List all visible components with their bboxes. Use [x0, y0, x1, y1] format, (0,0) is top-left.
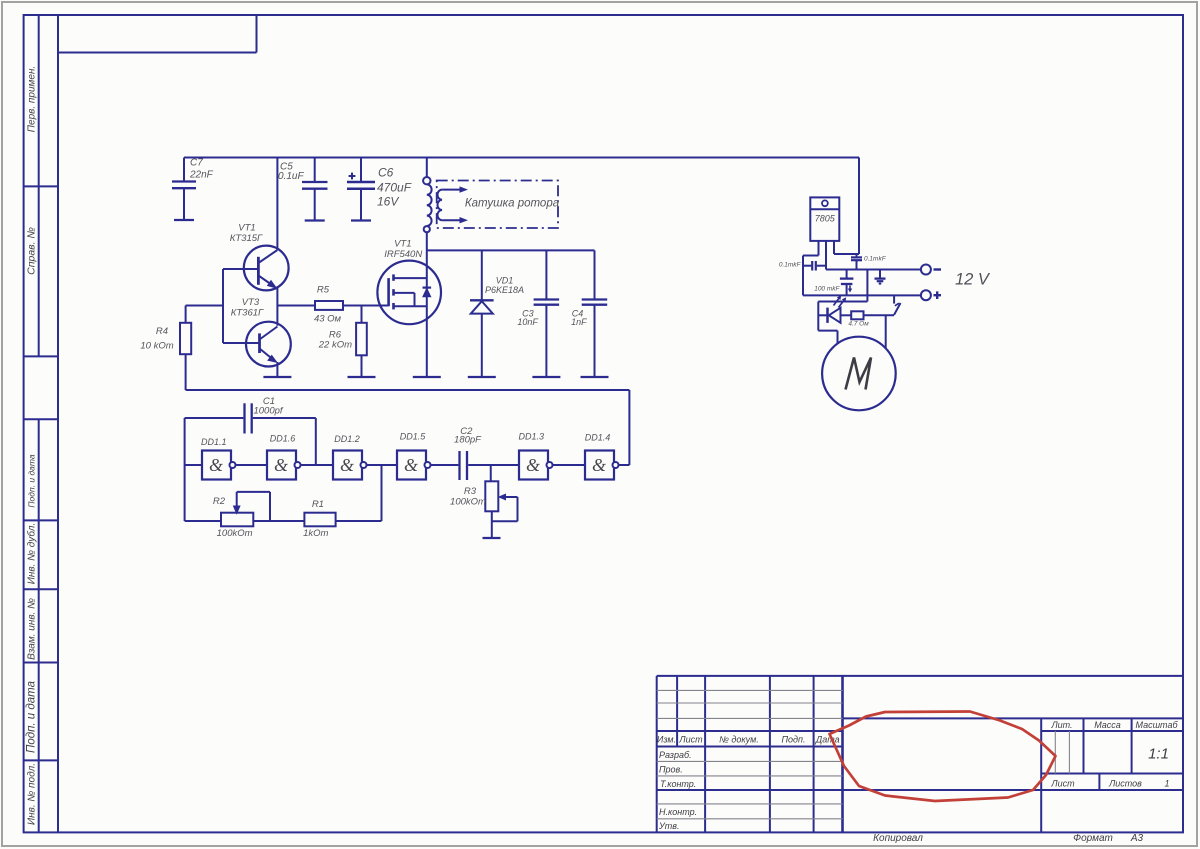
- svg-text:DD1.4: DD1.4: [585, 433, 611, 443]
- svg-text:43 Ом: 43 Ом: [314, 314, 342, 325]
- svg-text:DD1.5: DD1.5: [400, 432, 427, 442]
- svg-text:&: &: [274, 455, 288, 475]
- svg-text:DD1.6: DD1.6: [270, 434, 296, 444]
- svg-text:DD1.1: DD1.1: [201, 437, 227, 447]
- svg-text:VD1: VD1: [496, 276, 514, 286]
- svg-text:КТ361Г: КТ361Г: [231, 308, 264, 319]
- svg-text:100kOm: 100kOm: [450, 497, 486, 508]
- svg-text:&: &: [209, 455, 223, 475]
- svg-text:VT3: VT3: [242, 297, 260, 308]
- svg-text:Подп. и дата: Подп. и дата: [26, 681, 38, 753]
- svg-text:IRF540N: IRF540N: [384, 249, 422, 260]
- svg-text:22 kOm: 22 kOm: [318, 340, 352, 351]
- svg-text:P6KE18A: P6KE18A: [485, 285, 524, 295]
- svg-text:Масса: Масса: [1094, 720, 1121, 730]
- svg-text:Перв. примен.: Перв. примен.: [27, 66, 38, 132]
- svg-text:Масштаб: Масштаб: [1135, 720, 1178, 730]
- svg-text:C7: C7: [190, 158, 203, 169]
- svg-text:100 mkF: 100 mkF: [814, 286, 840, 293]
- svg-text:DD1.3: DD1.3: [519, 432, 545, 442]
- svg-text:Н.контр.: Н.контр.: [659, 807, 697, 817]
- svg-text:Т.контр.: Т.контр.: [660, 779, 696, 789]
- svg-text:Катушка ротора: Катушка ротора: [465, 198, 559, 210]
- svg-text:10nF: 10nF: [517, 317, 538, 327]
- svg-text:100kOm: 100kOm: [217, 528, 253, 539]
- svg-text:Справ. №: Справ. №: [26, 227, 38, 275]
- svg-text:Дата: Дата: [815, 735, 840, 745]
- svg-text:VT1: VT1: [238, 223, 255, 234]
- svg-text:DD1.2: DD1.2: [334, 434, 360, 444]
- svg-text:R3: R3: [464, 486, 477, 497]
- svg-text:470uF: 470uF: [377, 181, 412, 195]
- svg-text:Взам. инв. №: Взам. инв. №: [27, 598, 38, 660]
- svg-text:C6: C6: [378, 166, 394, 180]
- svg-text:КТ315Г: КТ315Г: [230, 233, 263, 244]
- svg-text:1000pf: 1000pf: [253, 406, 283, 417]
- svg-text:Лист: Лист: [1050, 779, 1075, 789]
- svg-text:12 V: 12 V: [955, 271, 991, 289]
- svg-text:1nF: 1nF: [571, 317, 587, 327]
- svg-text:Лист: Лист: [678, 735, 703, 745]
- svg-text:Пров.: Пров.: [659, 765, 683, 775]
- svg-text:R5: R5: [317, 285, 330, 296]
- svg-text:Утв.: Утв.: [658, 821, 679, 831]
- svg-text:&: &: [340, 455, 354, 475]
- svg-text:Инв. № дубл.: Инв. № дубл.: [26, 523, 38, 585]
- svg-text:0.1mkF: 0.1mkF: [779, 262, 802, 269]
- svg-text:7805: 7805: [815, 214, 836, 224]
- svg-text:10 kOm: 10 kOm: [140, 341, 173, 352]
- svg-text:Формат: Формат: [1073, 833, 1113, 844]
- svg-text:Подп.: Подп.: [782, 735, 806, 745]
- svg-text:&: &: [592, 455, 606, 475]
- svg-text:0.1mkF: 0.1mkF: [864, 256, 887, 263]
- svg-text:А3: А3: [1130, 833, 1144, 844]
- svg-text:R1: R1: [312, 499, 324, 510]
- svg-text:&: &: [526, 455, 540, 475]
- svg-text:R2: R2: [213, 496, 226, 507]
- svg-text:1:1: 1:1: [1148, 746, 1169, 763]
- svg-text:16V: 16V: [377, 195, 399, 209]
- svg-text:1: 1: [1164, 779, 1169, 789]
- svg-text:Подп. и дата: Подп. и дата: [27, 454, 37, 507]
- svg-text:22nF: 22nF: [189, 170, 214, 181]
- svg-text:Разраб.: Разраб.: [659, 750, 692, 760]
- svg-text:Лит.: Лит.: [1050, 720, 1072, 730]
- svg-text:R4: R4: [156, 326, 168, 337]
- svg-text:Листов: Листов: [1108, 779, 1142, 789]
- svg-text:Изм.: Изм.: [657, 735, 676, 745]
- svg-text:VT1: VT1: [394, 239, 411, 250]
- svg-text:4.7 Ом: 4.7 Ом: [848, 321, 869, 328]
- svg-text:Копировал: Копировал: [873, 833, 923, 844]
- svg-text:180pF: 180pF: [454, 435, 482, 446]
- svg-text:Инв. № подл.: Инв. № подл.: [27, 763, 38, 825]
- svg-text:&: &: [404, 455, 418, 475]
- svg-text:1kOm: 1kOm: [303, 528, 328, 539]
- svg-text:0.1uF: 0.1uF: [278, 171, 304, 182]
- svg-text:№ докум.: № докум.: [719, 735, 759, 745]
